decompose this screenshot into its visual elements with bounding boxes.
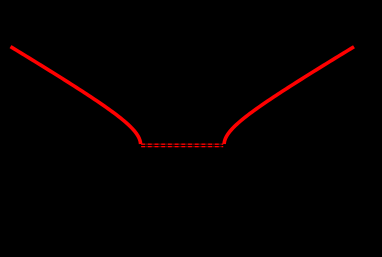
curve left branch [11,47,141,144]
dashed gap segment [141,143,223,147]
axis overlay line [141,144,224,146]
curve right branch [224,47,354,144]
dashed gap underglow [141,143,223,147]
